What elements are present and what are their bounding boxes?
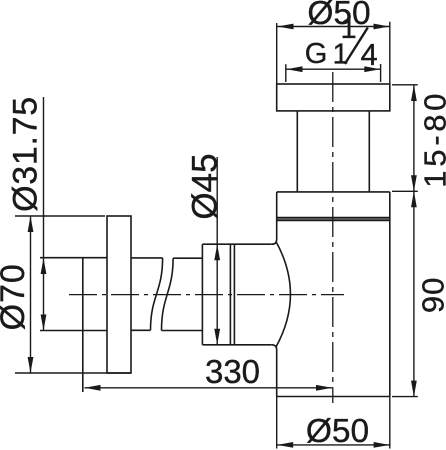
svg-text:Ø45: Ø45 xyxy=(186,153,225,219)
svg-text:90: 90 xyxy=(416,277,446,313)
svg-text:Ø31.75: Ø31.75 xyxy=(6,96,44,212)
svg-text:Ø50: Ø50 xyxy=(306,413,369,450)
svg-text:330: 330 xyxy=(205,353,260,390)
svg-text:G: G xyxy=(305,38,328,70)
svg-text:Ø70: Ø70 xyxy=(0,263,32,330)
svg-text:15-80: 15-80 xyxy=(417,90,446,188)
svg-text:Ø50: Ø50 xyxy=(307,0,370,32)
svg-text:4: 4 xyxy=(361,37,378,72)
svg-text:1: 1 xyxy=(341,13,357,45)
